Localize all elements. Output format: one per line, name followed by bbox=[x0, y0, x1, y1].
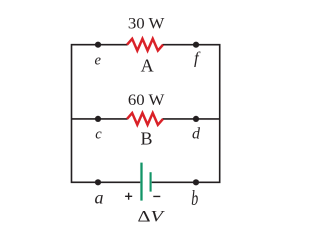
svg-text:B: B bbox=[140, 129, 152, 149]
svg-text:30 W: 30 W bbox=[128, 16, 165, 33]
svg-text:d: d bbox=[192, 126, 201, 143]
svg-text:A: A bbox=[141, 55, 154, 75]
svg-text:ΔV: ΔV bbox=[137, 208, 165, 225]
svg-text:c: c bbox=[95, 126, 102, 142]
svg-text:60 W: 60 W bbox=[128, 92, 165, 109]
svg-text:f: f bbox=[194, 49, 201, 68]
svg-text:b: b bbox=[191, 186, 198, 210]
svg-text:e: e bbox=[94, 52, 101, 68]
svg-text:a: a bbox=[94, 188, 103, 208]
